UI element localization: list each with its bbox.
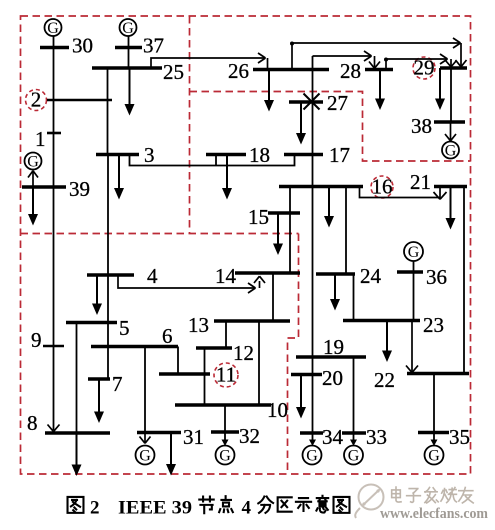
svg-text:G: G: [408, 244, 420, 261]
svg-text:10: 10: [267, 398, 288, 422]
svg-text:7: 7: [112, 372, 123, 396]
svg-text:G: G: [306, 448, 318, 465]
load arrow bus 25: [125, 68, 135, 116]
svg-text:14: 14: [215, 264, 237, 288]
wire 22-35: [433, 374, 435, 433]
partition boundary outer rectangle: [21, 16, 471, 474]
bus 23: [343, 313, 444, 337]
wire 21-22: [463, 187, 465, 374]
bus 28: [340, 59, 393, 83]
svg-text:30: 30: [72, 34, 93, 58]
svg-text:2: 2: [31, 88, 42, 112]
svg-text:G: G: [27, 154, 39, 171]
wire 16-21 connector with down arrow: [360, 187, 447, 200]
svg-text:IEEE 39: IEEE 39: [118, 498, 192, 519]
watermark text 电子发烧友: [392, 487, 474, 503]
svg-text:G: G: [139, 448, 151, 465]
svg-text:G: G: [445, 143, 457, 160]
bus 20: [291, 366, 343, 390]
load arrow bus 23: [382, 321, 392, 363]
wire 2-1-39-9-8 long vertical: [53, 48, 55, 431]
partition divider horizontal y=233 (region1/region2): [21, 233, 299, 235]
svg-text:29: 29: [414, 56, 435, 80]
svg-text:4: 4: [242, 498, 252, 519]
node 16 dashed circle: [371, 176, 393, 198]
bus 9: [31, 328, 64, 352]
generator G38: [442, 142, 459, 160]
bus 36: [397, 265, 447, 289]
bus 6: [91, 324, 178, 348]
svg-text:36: 36: [426, 265, 447, 289]
bus 31: [137, 425, 204, 449]
wire 6-11: [177, 347, 179, 375]
node 2 dashed circle: [26, 90, 47, 111]
svg-text:34: 34: [322, 425, 344, 449]
wire 3-4-5-6-7 long vertical: [107, 155, 109, 380]
svg-text:6: 6: [162, 324, 173, 348]
load arrow bus 21: [446, 187, 456, 230]
svg-text:27: 27: [327, 91, 348, 115]
svg-text:37: 37: [143, 34, 164, 58]
svg-text:33: 33: [366, 425, 387, 449]
svg-text:G: G: [219, 448, 231, 465]
caption 分区示意图: [258, 496, 349, 513]
svg-text:8: 8: [27, 411, 38, 435]
generator G33: [344, 446, 363, 465]
open arrow landing on bus 8: [48, 425, 60, 432]
generator G34: [303, 446, 322, 465]
load arrow bus 7: [94, 379, 104, 423]
load arrow bus 29: [435, 68, 445, 110]
partition region3 lower boundary: [190, 92, 471, 162]
wire 23-22 with down arrow: [406, 321, 418, 373]
generator G30: [45, 19, 62, 48]
bus 26: [228, 59, 329, 83]
bus 25: [92, 60, 184, 84]
svg-text:18: 18: [249, 143, 270, 167]
bus 21: [410, 170, 467, 194]
partition divider region2/region4 step: [288, 234, 299, 475]
wire 16-15-14 vertical: [289, 187, 291, 274]
wire 13-12: [225, 321, 227, 348]
svg-text:1: 1: [35, 127, 46, 151]
bus 7: [88, 372, 123, 396]
generator G39: [25, 153, 42, 171]
bus 8: [27, 411, 110, 435]
wire 16-24: [345, 187, 347, 275]
load arrow bus 24: [330, 274, 340, 311]
svg-text:28: 28: [340, 59, 361, 83]
wire 32-G32 with small arrow: [222, 432, 229, 446]
generator G37: [120, 19, 137, 48]
bus 4: [87, 264, 158, 288]
wire 35-G35 with small arrow: [431, 433, 438, 447]
wire 4-14 connector with flow arrows: [118, 275, 265, 293]
generator G35: [425, 446, 444, 465]
caption 图 2: [68, 497, 84, 513]
bus 37: [115, 34, 164, 58]
svg-text:2: 2: [90, 498, 100, 519]
watermark logo circle: [355, 485, 383, 519]
wire 26-28 with flow arrows: [313, 51, 381, 70]
wire 24-23: [353, 274, 355, 321]
bus 17: [284, 143, 350, 167]
bus 22: [374, 368, 469, 392]
svg-text:23: 23: [423, 313, 444, 337]
load arrow bus 28: [375, 70, 385, 111]
bus 12: [196, 341, 254, 365]
node 11 dashed circle: [214, 363, 238, 387]
svg-text:24: 24: [360, 264, 382, 288]
wire 37-25: [128, 48, 130, 69]
wire 33-G33 with small arrow: [350, 433, 357, 446]
load arrow bus 4: [92, 275, 102, 315]
wire 5-8: [76, 323, 78, 434]
wire 26-29 with junction dot and flow arrows: [292, 38, 467, 70]
bus 14: [215, 264, 300, 288]
svg-text:39: 39: [69, 177, 90, 201]
bus 3: [96, 143, 155, 167]
svg-text:G: G: [47, 20, 59, 37]
svg-text:35: 35: [449, 425, 470, 449]
wire 29-38: [450, 68, 452, 122]
svg-text:25: 25: [163, 60, 184, 84]
wire 25-26 with flow arrow: [151, 53, 268, 70]
bus 1: [35, 127, 61, 151]
bus 15: [248, 205, 300, 229]
load arrow bus 8: [72, 433, 82, 476]
bus 30: [40, 34, 93, 58]
bus 18: [206, 143, 270, 167]
load arrow bus 20: [296, 375, 306, 419]
bus 27 with X marker: [289, 91, 348, 115]
svg-text:3: 3: [144, 143, 155, 167]
wire 12-11-10: [204, 348, 206, 405]
svg-text:13: 13: [188, 313, 209, 337]
svg-text:31: 31: [183, 425, 204, 449]
generator G32: [216, 446, 235, 465]
bus 2 (horizontal line): [31, 88, 112, 112]
bus 38: [411, 114, 465, 138]
bus 33: [342, 425, 387, 449]
svg-text:G: G: [122, 20, 134, 37]
svg-text:21: 21: [410, 170, 431, 194]
generator G31: [136, 446, 155, 465]
generator G36: [404, 242, 423, 272]
wire 31-G31 with open arrow: [140, 433, 151, 444]
bus 13: [188, 313, 290, 337]
wire 3-18-17 connector: [130, 155, 295, 166]
svg-text:G: G: [428, 448, 440, 465]
svg-text:G: G: [348, 448, 360, 465]
load arrow bus 27: [296, 102, 306, 145]
svg-text:www.elecfans.com: www.elecfans.com: [380, 506, 488, 522]
wire 36-23: [413, 272, 415, 321]
svg-text:26: 26: [228, 59, 249, 83]
wire 19-33: [353, 357, 355, 433]
svg-text:32: 32: [239, 424, 260, 448]
svg-text:17: 17: [329, 143, 350, 167]
svg-text:9: 9: [31, 328, 42, 352]
wire 6-31: [144, 347, 146, 433]
load arrow bus 31: [166, 433, 176, 476]
svg-text:16: 16: [372, 175, 393, 199]
wire 39-G39 with up arrow: [28, 171, 38, 187]
bus 24: [316, 264, 382, 288]
bus 16: [279, 175, 393, 199]
bus 10: [175, 398, 288, 422]
svg-text:38: 38: [411, 114, 432, 138]
wire 28-29 with junction dot and flow arrows: [386, 54, 457, 70]
bus 35: [418, 425, 470, 449]
wire 34-G34 with small arrow: [309, 440, 316, 447]
wire 26-27-17-16-19-20-34 long vertical: [312, 56, 314, 440]
load arrow bus 39: [28, 187, 38, 226]
bus 29: [414, 56, 468, 80]
bus 34: [300, 425, 344, 449]
wire 38-G38 with down arrow: [445, 122, 456, 141]
load arrow bus 16: [324, 187, 334, 228]
wire 14-13: [272, 273, 274, 321]
bus 19: [296, 335, 366, 359]
svg-text:15: 15: [248, 205, 269, 229]
svg-text:4: 4: [147, 264, 158, 288]
svg-text:22: 22: [374, 368, 395, 392]
wire 13-10: [258, 321, 260, 405]
bus 39: [22, 177, 90, 201]
bus 32: [211, 424, 260, 448]
node 29 dashed circle: [413, 57, 435, 79]
load arrow bus 15: [273, 213, 283, 255]
svg-text:11: 11: [216, 363, 236, 387]
load arrow bus 18: [222, 155, 232, 200]
svg-text:20: 20: [322, 366, 343, 390]
partition divider vertical x=189 (region1 right edge): [189, 16, 191, 234]
svg-text:5: 5: [119, 316, 130, 340]
load arrow bus 3: [114, 155, 124, 200]
bus 11: [159, 363, 236, 387]
bus 5: [66, 316, 130, 340]
caption 节点: [199, 496, 233, 513]
svg-text:12: 12: [233, 341, 254, 365]
wire 25-2-3 vertical: [107, 68, 109, 155]
load arrow bus 26: [264, 70, 274, 112]
wire 10-32: [224, 405, 226, 432]
svg-text:19: 19: [323, 335, 344, 359]
